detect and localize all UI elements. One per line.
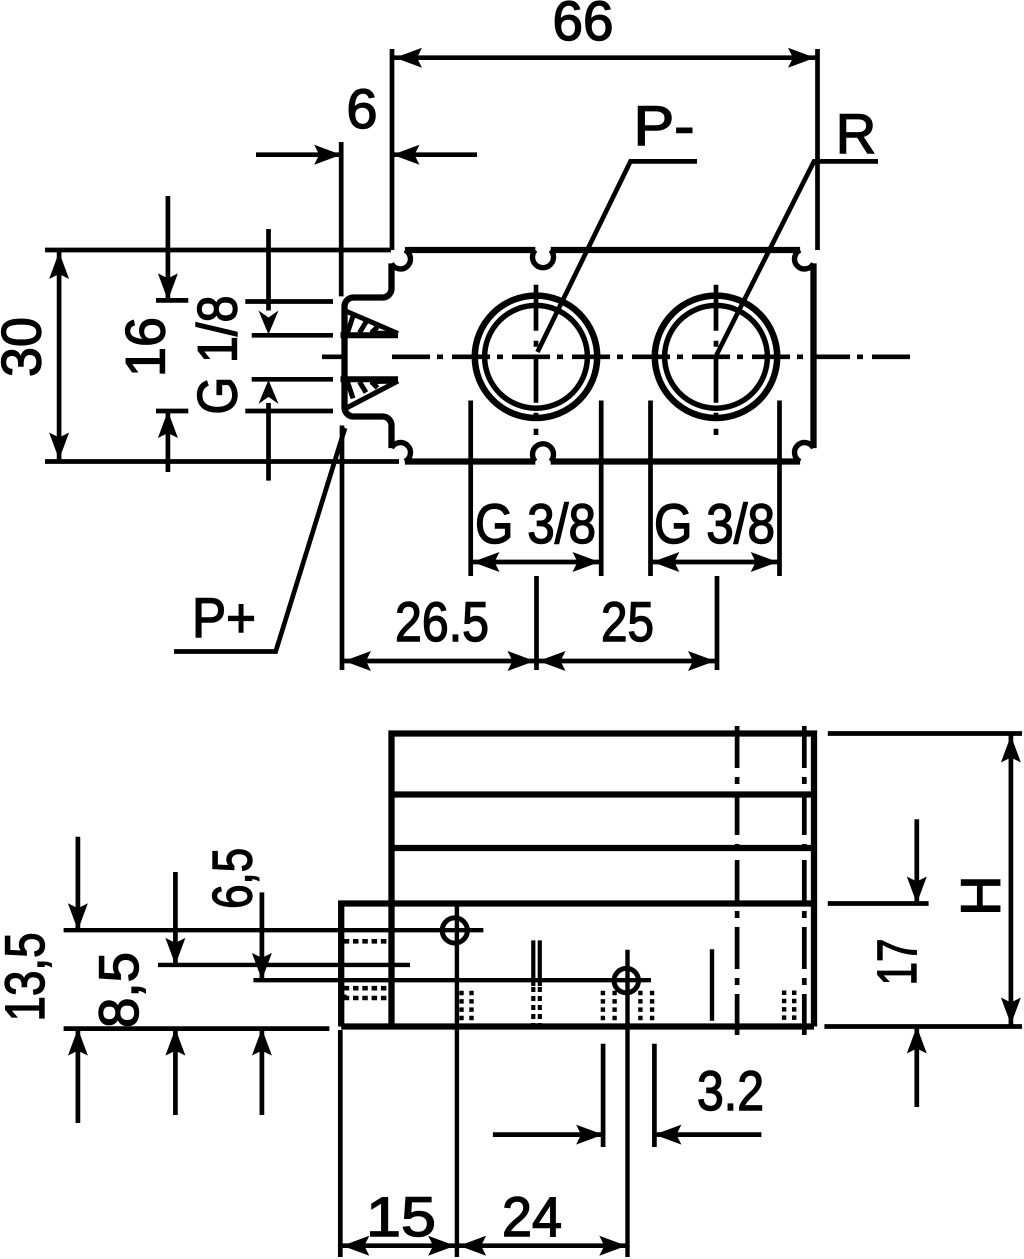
hole axis centerline 1 [735,726,740,1035]
dim 66 right extension line [815,49,820,250]
dim 26.5 line [342,659,537,664]
dim H line [1009,734,1014,1027]
dim 8.5 line [173,872,178,1115]
svg-text:G 3/8: G 3/8 [475,492,596,555]
dim 17 extension tick [828,901,929,906]
dim G1/8 line [266,229,271,481]
pilot port cone upper slant edge [345,311,399,334]
dim G1/8 extension line 1 [245,299,333,304]
side view mounting face line [392,900,815,906]
left mounting-face contour wave [345,263,392,448]
vertical centerline of port P- [534,285,539,435]
leader R [717,161,879,355]
dim 26.5/25 middle extension line [534,576,539,670]
dim G1/8 extension line 3 [252,377,333,382]
dim 26.5/25 left extension line [340,426,345,671]
dim 6.5 line [260,892,265,1115]
side port B horizontal line [253,978,651,982]
leader P+ [174,428,345,652]
side view body outline [392,734,815,1027]
dim 66 left extension line [390,49,395,250]
dim G1/8 extension line 2 [252,333,333,338]
pilot port cone upper hatching [348,316,378,333]
side port A circle [442,918,467,943]
pin bore hidden lines [533,987,540,1027]
hidden hole rows lower in left block [344,988,388,998]
side view bottom edge [341,1023,814,1029]
horizontal centerline left stub [322,354,346,359]
svg-text:25: 25 [601,590,654,653]
side port A horizontal line [64,928,484,932]
svg-text:30: 30 [0,317,53,377]
dim 24 line [457,1243,628,1248]
dim 6 arrows [256,152,477,157]
hole axis centerline 2 [802,726,807,1035]
dim 13.5 line [76,837,81,1123]
svg-text:8,5: 8,5 [87,952,150,1028]
dim H top extension line [828,731,1022,736]
leader P- [538,161,698,352]
dim 3.2 extension lines [603,1044,654,1147]
dim 30 bottom extension line [45,459,399,464]
dim 6 extension line [339,142,344,296]
svg-text:3.2: 3.2 [697,1059,764,1122]
side view left block outline [341,904,391,1027]
dim 25 line [537,659,718,664]
svg-text:17: 17 [865,939,928,986]
pilot port cone lower hatching [348,382,378,399]
svg-text:H: H [949,875,1012,915]
svg-text:6,5: 6,5 [201,848,264,909]
hidden thread lines right [784,991,794,1021]
edge notch bottom middle [533,444,554,462]
pilot port cone lower slant edge [345,381,399,409]
svg-text:13,5: 13,5 [0,933,56,1022]
dim 15 line [340,1243,457,1248]
reference line 8.5 [158,963,410,967]
pilot port cone upper base edge [341,332,399,338]
top view plate bottom edge [405,458,800,464]
side port B vertical axis [625,950,629,1257]
port P- outer circle [475,296,597,418]
hidden thread lines bottom port [603,991,652,1027]
corner relief notch bottom-left [392,443,411,462]
svg-text:P-: P- [634,94,695,157]
dim 16 tick bottom [156,409,188,414]
svg-text:G 1/8: G 1/8 [186,296,249,415]
port P- inner circle [485,305,588,408]
svg-text:G 3/8: G 3/8 [654,492,775,555]
dim H bottom extension line [824,1024,1022,1029]
svg-text:P+: P+ [192,586,256,649]
corner relief notch top-right [795,250,814,269]
svg-text:R: R [836,102,876,165]
corner relief notch bottom-right [795,443,814,462]
svg-text:24: 24 [502,1185,562,1248]
svg-text:6: 6 [346,77,377,140]
port R inner circle [665,305,768,408]
side view internal line 1 [392,791,815,797]
side view internal line 2 [392,845,815,851]
edge notch top middle [533,250,554,268]
dim 16 tick top [156,298,188,303]
dim 16 line [166,196,171,472]
dim G3/8 right line [651,560,780,565]
svg-text:26.5: 26.5 [395,590,489,653]
corner relief notch top-left [392,250,411,269]
dim 17 line [914,819,919,1107]
svg-text:16: 16 [114,317,177,377]
dim G3/8 left extension lines [471,401,602,577]
vertical centerline of port R [714,285,719,435]
top view plate top edge [405,247,800,253]
dim G1/8 extension line 4 [245,409,333,414]
side port B circle [614,968,638,992]
dim 3.2 arrows [493,1132,762,1137]
side port A vertical axis [455,904,459,1257]
dim G3/8 left line [471,560,602,565]
hidden hole row upper in left block [344,939,388,944]
dim 26.5/25 right extension line [715,576,720,670]
dim 15/24 left extension line [338,1030,343,1257]
dim 30 line [57,250,62,462]
dim G3/8 right extension lines [651,401,780,577]
port R outer circle [655,296,777,418]
pin bore solid lines [533,940,540,986]
svg-text:66: 66 [553,0,614,52]
dim 30 top extension line [45,248,391,253]
hidden thread lines below port A [462,991,472,1027]
horizontal centerline [392,354,912,359]
pilot port cone lower base edge [341,376,399,382]
top view plate right edge [810,263,816,448]
svg-text:15: 15 [366,1185,436,1248]
internal edge line [710,949,714,1021]
dim 66 line [393,55,818,60]
dim 13.5 bottom extension line [64,1026,330,1031]
